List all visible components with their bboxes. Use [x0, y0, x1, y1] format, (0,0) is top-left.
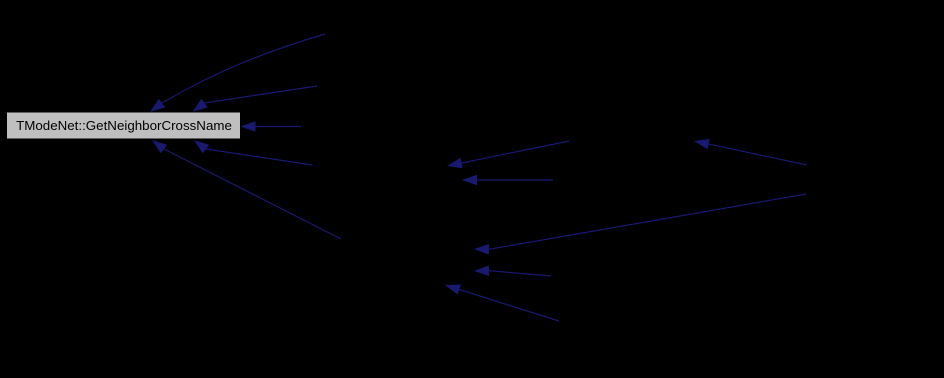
svg-text:TModeNet::GetNeighborCrossName: TModeNet::GetNeighborCrossName	[16, 118, 232, 133]
